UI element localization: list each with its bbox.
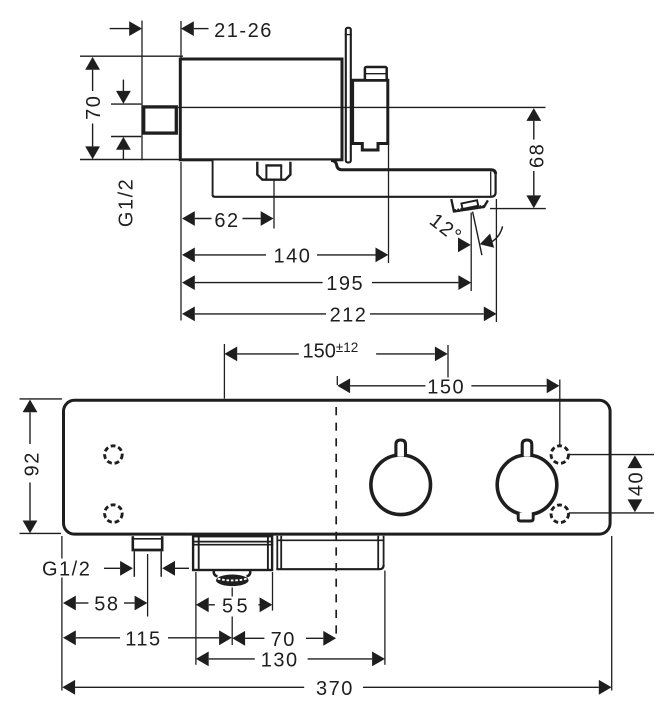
- svg-text:150: 150: [427, 376, 465, 398]
- svg-text:G1/2: G1/2: [42, 558, 91, 580]
- dim 195: [182, 273, 471, 295]
- dim 40: [628, 455, 643, 468]
- dim 58: [63, 594, 147, 616]
- G1/2 down arrow: [122, 80, 124, 92]
- valve cap: [365, 67, 387, 80]
- escutcheon plate: [346, 28, 351, 163]
- spout bar (side view): [213, 161, 496, 197]
- dashed screw circles left: [105, 446, 123, 464]
- svg-text:40: 40: [626, 471, 648, 496]
- left knob: [371, 455, 431, 515]
- extension lines bottom view: [61, 536, 63, 559]
- svg-text:5: 5: [236, 595, 249, 617]
- svg-text:140: 140: [273, 245, 311, 267]
- dashed circles right: [551, 446, 569, 464]
- aerator: [214, 571, 218, 577]
- block2 (bottom view): [276, 536, 383, 569]
- svg-text:58: 58: [94, 594, 119, 616]
- dim 55: [196, 595, 273, 617]
- svg-text:212: 212: [330, 304, 368, 326]
- svg-text:115: 115: [125, 628, 161, 650]
- G1/2 up arrow: [116, 137, 131, 150]
- right knob bottom tab: [518, 513, 533, 522]
- dim 212: [182, 304, 497, 326]
- G1/2 stub (bottom view): [132, 536, 164, 577]
- dim 21-26: [110, 20, 273, 42]
- extension line body-left upper: [180, 21, 182, 58]
- svg-text:21-26: 21-26: [214, 20, 273, 42]
- hex fitting under body: [257, 162, 290, 180]
- dim 370: [62, 678, 611, 700]
- body (bottom view): [64, 400, 611, 534]
- bar end cap line: [490, 172, 492, 196]
- svg-text:5: 5: [222, 595, 235, 617]
- dim 150: [337, 376, 560, 445]
- right knob: [497, 455, 557, 515]
- body (side view): [180, 59, 342, 160]
- svg-text:68: 68: [527, 143, 549, 168]
- ext line 195: [470, 213, 472, 292]
- dim 92: [22, 400, 44, 534]
- svg-text:130: 130: [261, 649, 299, 671]
- svg-text:70: 70: [83, 95, 105, 120]
- svg-text:70: 70: [271, 629, 296, 651]
- dim 130: [196, 649, 385, 671]
- ext line 212: [495, 199, 497, 322]
- svg-text:370: 370: [316, 678, 354, 700]
- wall line: [141, 21, 143, 161]
- valve block: [353, 80, 388, 150]
- svg-text:62: 62: [214, 210, 239, 232]
- dim 62: [182, 210, 274, 232]
- dim 150+-12: [224, 340, 448, 399]
- dim 115 / 70: [63, 628, 336, 651]
- G1/2 label + arrows (bottom view): [42, 558, 189, 580]
- ext line 140: [388, 145, 390, 264]
- G1/2 small dim ticks: [111, 103, 141, 105]
- svg-text:G1/2: G1/2: [116, 178, 138, 227]
- svg-text:195: 195: [326, 273, 364, 295]
- wall connection square: [144, 107, 177, 133]
- svg-text:92: 92: [22, 451, 44, 476]
- dim 92 ticks: [20, 398, 63, 400]
- 12 degree indicator: [473, 212, 482, 256]
- dim 140: [182, 245, 388, 267]
- block1 (spout block, bottom view): [192, 536, 273, 570]
- extension line body-left lower: [180, 162, 182, 321]
- center dashed line: [335, 407, 337, 638]
- dim 68: [490, 108, 549, 209]
- ext line hex center: [273, 181, 275, 229]
- spout outlet (tilted): [451, 199, 488, 211]
- dim 40 ticks: [569, 454, 654, 456]
- 68 top tick line (from square top across): [178, 106, 546, 108]
- dim 70 (left vertical): [80, 56, 183, 159]
